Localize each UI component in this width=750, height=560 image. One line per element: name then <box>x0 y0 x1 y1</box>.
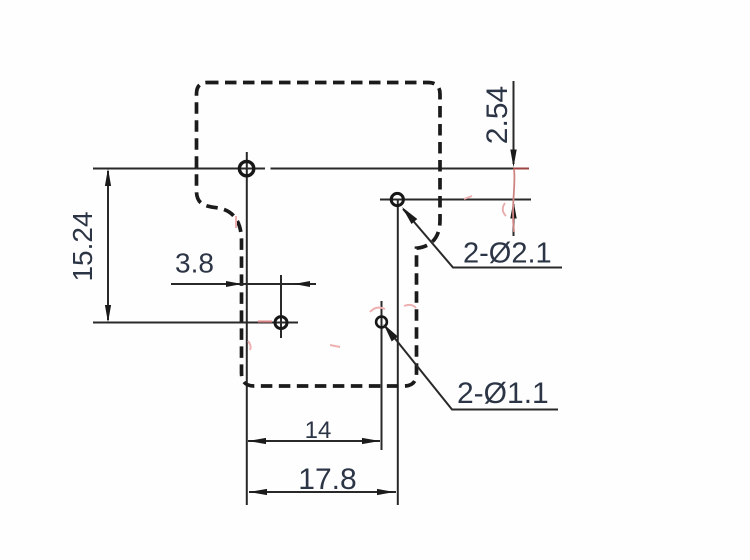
red annotation artifacts near 2.54 dimension <box>503 169 529 233</box>
vertical extension line from hole C2 (x=398) <box>397 200 399 506</box>
dimension 2.54 (vertical, top right) <box>481 81 517 236</box>
svg-text:15.24: 15.24 <box>67 211 98 281</box>
vertical centerline through hole C4 (x=381.5) <box>381 301 383 450</box>
vertical centerline / extension line through hole C1 (x=247) <box>246 152 248 505</box>
dimension 15.24 (vertical, left) <box>67 168 111 322</box>
svg-text:2.54: 2.54 <box>481 86 514 144</box>
hole C3: pin hole left-middle (Ø1.1) <box>275 317 287 329</box>
leader and label 2-Ø2.1 <box>402 207 562 270</box>
svg-text:3.8: 3.8 <box>175 248 214 279</box>
hole C4: pin hole bottom (Ø1.1) <box>376 317 387 328</box>
vertical centerline through hole C3 (x=281) <box>280 275 282 338</box>
dimension 14 (horizontal, bottom) <box>248 417 380 444</box>
hole C1: mounting hole top-left (Ø2.1) <box>239 161 253 175</box>
svg-text:2-Ø2.1: 2-Ø2.1 <box>463 238 552 270</box>
dimension 17.8 (horizontal, bottom) <box>249 463 396 496</box>
hole C2: mounting hole right (Ø2.1) <box>391 193 403 205</box>
svg-text:2-Ø1.1: 2-Ø1.1 <box>457 377 549 410</box>
dimension 3.8 (horizontal, middle left) <box>171 248 316 288</box>
centerline through hole C1 (horizontal, y=168.5) <box>93 168 513 170</box>
faint pink scan artifacts <box>236 196 472 350</box>
svg-text:14: 14 <box>305 417 332 444</box>
svg-text:17.8: 17.8 <box>298 463 356 496</box>
relay body outline (dashed) <box>197 83 441 387</box>
extension line through hole C3 (horizontal, y=322.5) <box>93 322 298 324</box>
centerline through hole C2 (horizontal, y=199.5) <box>380 199 531 201</box>
leader and label 2-Ø1.1 <box>384 324 559 410</box>
